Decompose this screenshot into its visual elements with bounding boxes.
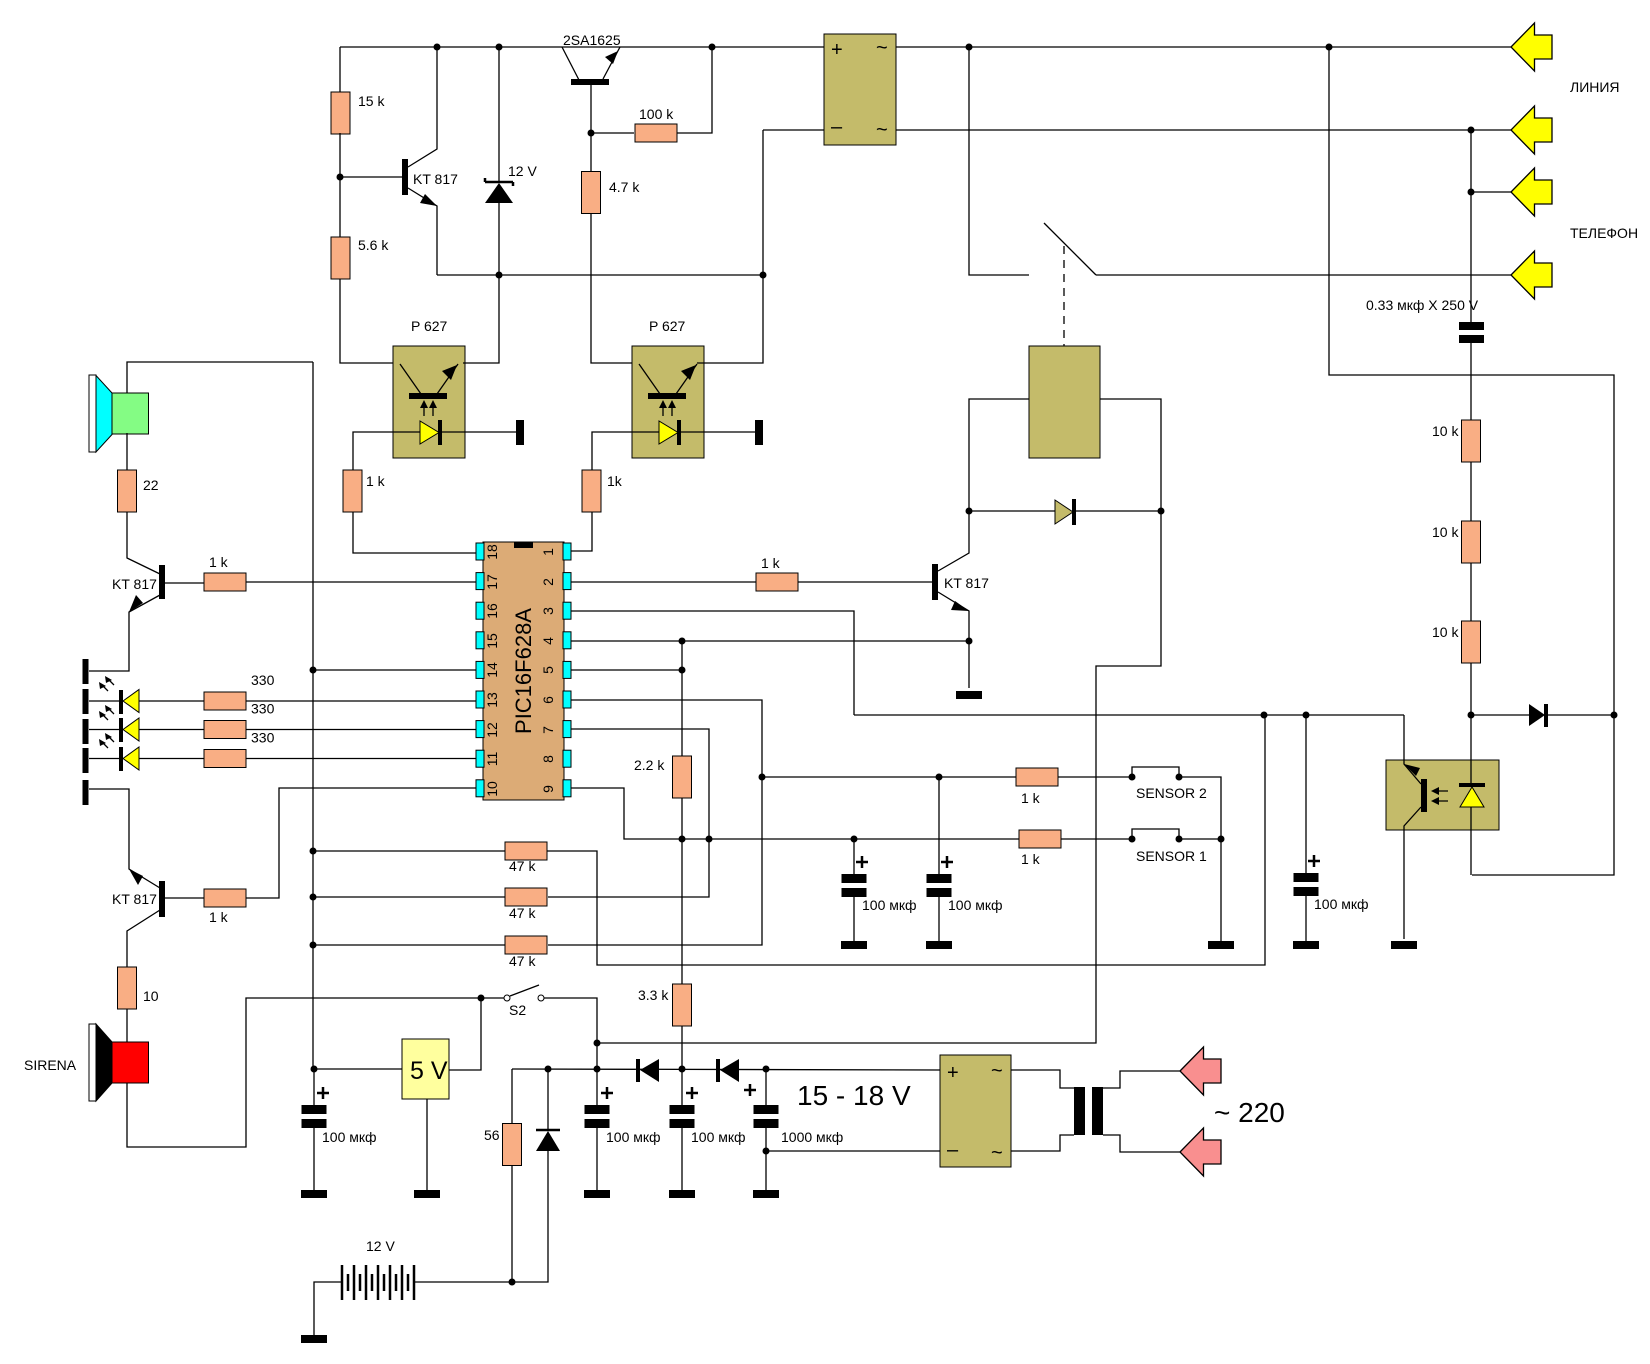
wire cap4 top [765, 1069, 767, 1105]
wire top rail right [896, 46, 1511, 48]
wire LED1 to resistor [139, 700, 204, 702]
resistor 47k c [505, 936, 547, 954]
wire speaker top [127, 362, 313, 393]
wire bridge1 minus [763, 129, 824, 131]
arrow Q3 emitter [951, 601, 969, 611]
node switch feed [966, 44, 973, 51]
bridge rectifier B2 [940, 1055, 1011, 1167]
wire 15k to node [339, 133, 341, 237]
resistor 15k [331, 92, 350, 134]
svg-text:ЛИНИЯ: ЛИНИЯ [1570, 79, 1620, 95]
wire 100k left [591, 132, 634, 134]
wire 330 to pin12 [246, 729, 476, 731]
wire capB top [938, 777, 940, 874]
wire 47k3 row [313, 944, 505, 946]
capacitor C3 100mkf [670, 1105, 695, 1114]
node S2 left [478, 995, 485, 1002]
svg-text:KT 817: KT 817 [944, 575, 989, 591]
battery GB1 12V [342, 1265, 414, 1300]
svg-text:1 k: 1 k [209, 554, 229, 570]
svg-text:5 V: 5 V [410, 1057, 448, 1085]
ground opto3 [1391, 941, 1417, 949]
resistor 10k c [1462, 621, 1481, 663]
wire zener top [498, 47, 500, 182]
svg-text:~: ~ [991, 1060, 1003, 1082]
wire switch feed [969, 47, 1029, 275]
svg-text:P 627: P 627 [411, 318, 448, 334]
wire capA bottom [853, 897, 855, 941]
wire cap3 bottom [681, 1128, 683, 1190]
wire bar to LED3 [89, 758, 119, 760]
wire top rail left [340, 46, 824, 48]
wire pin3 [571, 611, 854, 715]
wire LED3 to resistor [139, 758, 204, 760]
wire Q2 base [165, 582, 204, 584]
svg-text:47 k: 47 k [509, 905, 536, 921]
svg-text:~: ~ [876, 119, 888, 141]
LED D2 [119, 718, 123, 742]
svg-text:+: + [947, 1062, 959, 1084]
svg-text:S2: S2 [509, 1002, 526, 1018]
ground sensors [1208, 941, 1234, 949]
svg-text:47 k: 47 k [509, 953, 536, 969]
wire capA top [853, 839, 855, 874]
node 10k opto [1468, 712, 1475, 719]
wire sensor2 row [763, 776, 1016, 778]
svg-text:330: 330 [251, 730, 275, 746]
wire bottom rail [512, 1069, 940, 1070]
svg-text:SIRENA: SIRENA [24, 1057, 77, 1073]
wire 1k to pin17 [246, 581, 476, 583]
svg-text:100 мкф: 100 мкф [862, 897, 917, 913]
LED D1 light arrows [99, 676, 114, 691]
wire Q2 emitter [89, 595, 160, 671]
wire opto3 emitter [1404, 807, 1421, 939]
opto U1 LED [420, 421, 439, 444]
svg-text:10 k: 10 k [1432, 524, 1459, 540]
wire diode row right [1076, 510, 1161, 512]
wire bridge2 to coil top [1011, 1070, 1074, 1088]
node Q3 emitter pin4 [966, 638, 973, 645]
svg-text:14: 14 [484, 662, 500, 678]
wire 47k2 row [313, 896, 505, 898]
wire sensor gnd [1220, 839, 1222, 941]
wire 5.6k to opto1 collector [340, 279, 393, 363]
svg-text:SENSOR 2: SENSOR 2 [1136, 785, 1207, 801]
resistor 10 [118, 967, 137, 1009]
resistor 56 [503, 1124, 522, 1166]
terminator bar opto1 [516, 420, 524, 445]
node linia col [1326, 44, 1333, 51]
svg-text:10 k: 10 k [1432, 624, 1459, 640]
diode D5 [536, 1129, 560, 1132]
diode D6 [636, 1059, 640, 1082]
ground cap4 [753, 1190, 779, 1198]
connector bar column [83, 659, 89, 684]
wire diode col [547, 1069, 549, 1129]
svg-text:SENSOR 1: SENSOR 1 [1136, 848, 1207, 864]
svg-text:6: 6 [540, 696, 556, 704]
svg-text:1k: 1k [607, 473, 623, 489]
sensor 1 contact [1132, 829, 1179, 839]
wire Q3 emitter [938, 592, 969, 688]
svg-text:2.2 k: 2.2 k [634, 757, 665, 773]
node rail cap4 [763, 1066, 770, 1073]
arrow 2SA1625 emitter [605, 51, 618, 64]
LED D3 light arrows [99, 733, 114, 748]
wire 1k to pin18 [353, 512, 476, 553]
svg-text:10: 10 [143, 988, 159, 1004]
svg-text:–: – [831, 116, 843, 138]
wire sensor2 to contact [1058, 776, 1132, 778]
opto U1 light arrows [424, 407, 433, 416]
svg-text:18: 18 [484, 544, 500, 560]
node top rail 100k [709, 44, 716, 51]
LED D1 [119, 690, 123, 714]
wire 3.3k to rail [681, 1026, 683, 1069]
arrow Q2 emitter [129, 595, 143, 612]
resistor 1k sensor2 [1016, 768, 1058, 786]
svg-text:17: 17 [484, 574, 500, 590]
svg-text:12 V: 12 V [366, 1238, 395, 1254]
capacitor C7 100mkf [1294, 873, 1319, 882]
LED D3 [119, 747, 123, 771]
ground battery [301, 1335, 327, 1343]
wire coil right bottom [1103, 1135, 1180, 1152]
wire sensor2 right [1179, 777, 1221, 839]
node sensor2 b [1176, 774, 1183, 781]
wire opto1 emitter [463, 275, 499, 363]
wire 5V left [314, 1068, 402, 1070]
resistor 3.3k [673, 984, 692, 1026]
svg-text:PIC16F628A: PIC16F628A [511, 608, 536, 734]
wire opto1 LED anode [353, 432, 420, 471]
svg-text:4.7 k: 4.7 k [609, 179, 640, 195]
svg-text:100 k: 100 k [639, 106, 674, 122]
wire battery left [314, 1282, 342, 1335]
svg-text:330: 330 [251, 701, 275, 717]
svg-text:0.33 мкф X 250 V: 0.33 мкф X 250 V [1366, 297, 1479, 313]
svg-text:15 k: 15 k [358, 93, 385, 109]
node sensor1 b [1176, 836, 1183, 843]
svg-text:330: 330 [251, 672, 275, 688]
resistor 330 1 [204, 692, 246, 710]
svg-text:KT 817: KT 817 [413, 171, 458, 187]
wire 2.2k col [681, 641, 683, 756]
chip notch [514, 542, 533, 548]
wire D3 to right col [1548, 714, 1614, 716]
node 2SA base 100k [588, 130, 595, 137]
wire cap2 bottom [596, 1128, 598, 1190]
transistor Q3 KT817 bar [932, 564, 938, 600]
capacitor C6 100mkf [927, 874, 952, 883]
wire pin2 to base [571, 581, 756, 583]
node cap B top [936, 774, 943, 781]
resistor 1k Q4 [204, 889, 246, 907]
svg-text:10: 10 [484, 781, 500, 797]
svg-text:100 мкф: 100 мкф [1314, 896, 1369, 912]
opto U1 transistor [400, 364, 458, 394]
svg-text:5.6 k: 5.6 k [358, 237, 389, 253]
svg-text:100 мкф: 100 мкф [948, 897, 1003, 913]
svg-text:9: 9 [540, 785, 556, 793]
wire Q1 collector [408, 47, 437, 167]
resistor 100k [635, 124, 677, 142]
svg-text:7: 7 [540, 726, 556, 734]
node bus pin14 [310, 667, 317, 674]
resistor 1k opto2 [582, 470, 601, 512]
capacitor C1 100mkf [302, 1105, 327, 1114]
transistor Q1 KT817 bar [402, 159, 408, 195]
wire cap033 col [1470, 130, 1472, 322]
arrow TELEFON 1 [1511, 168, 1552, 216]
node pin6 sensor2 [759, 774, 766, 781]
wire 2SA1625 left diag [562, 47, 579, 80]
wire 56 col top [511, 1069, 513, 1123]
resistor 10k a [1462, 420, 1481, 462]
ground capB [926, 941, 952, 949]
wire 2.2k to row839 [681, 798, 683, 984]
wire sensor1 right [1179, 838, 1221, 840]
node pin7 row839 [706, 836, 713, 843]
LED D2 light arrows [99, 705, 114, 720]
node bus 47k3 [310, 942, 317, 949]
wire relay right [1100, 399, 1161, 511]
chip U4 PIC16F628A body [483, 542, 564, 800]
resistor 4.7k [582, 172, 601, 214]
svg-text:12: 12 [484, 722, 500, 738]
opto U2 light arrows [663, 407, 672, 416]
wire 1k to pin1 [571, 512, 592, 551]
svg-text:12 V: 12 V [508, 163, 537, 179]
ground 5V [414, 1190, 440, 1198]
node telefon1 [1468, 189, 1475, 196]
svg-text:5: 5 [540, 666, 556, 674]
wire bridge1 out2 [896, 129, 1511, 131]
node 715 right [1611, 712, 1618, 719]
svg-text:16: 16 [484, 603, 500, 619]
wire 4.7k to opto2 collector [591, 214, 632, 363]
wire 2SA1625 base [590, 85, 592, 171]
resistor 1k Q2 [204, 573, 246, 591]
wire cap3 top [681, 1069, 683, 1105]
capacitor C4 1000mkf [754, 1105, 779, 1114]
svg-text:100 мкф: 100 мкф [322, 1129, 377, 1145]
node pin5 2.2k [679, 667, 686, 674]
optocoupler U1 P627 body [393, 346, 465, 458]
svg-text:8: 8 [540, 755, 556, 763]
wire 2SA1625 right diag [603, 47, 620, 79]
opto3 light arrows [1437, 791, 1448, 801]
relay K1 body [1029, 346, 1100, 458]
svg-text:4: 4 [540, 637, 556, 645]
svg-text:~ 220: ~ 220 [1214, 1097, 1285, 1128]
ground Q3 emitter [956, 691, 982, 699]
node pin4 2.2k [679, 638, 686, 645]
wire bridge2 to coil bottom [1011, 1135, 1074, 1151]
wire cap4 bottom [765, 1128, 767, 1190]
opto3 transistor bar [1421, 779, 1427, 812]
wire 22 to Q2 collector [127, 512, 160, 574]
wire bar to LED2 [89, 729, 119, 731]
wire Q1 emitter [408, 188, 437, 275]
sensor 2 contact [1132, 767, 1179, 777]
svg-text:47 k: 47 k [509, 858, 536, 874]
node 12V P627-2 junction [760, 272, 767, 279]
wire LED2 to resistor [139, 729, 204, 731]
svg-text:13: 13 [484, 692, 500, 708]
wire siren out [127, 998, 504, 1147]
wire cap5 bottom [1305, 896, 1307, 941]
svg-text:22: 22 [143, 477, 159, 493]
wire 47k1 row [313, 850, 505, 852]
regulator 5V [402, 1039, 449, 1099]
diode D7 [716, 1059, 720, 1082]
wire net715 [854, 714, 1404, 716]
opto3 LED [1459, 783, 1485, 787]
svg-text:100 мкф: 100 мкф [606, 1129, 661, 1145]
resistor 330 2 [204, 721, 246, 739]
svg-text:+: + [831, 39, 843, 61]
node relay diode right [1158, 508, 1165, 515]
ground cap3 [669, 1190, 695, 1198]
node base KT817 Q1 [337, 174, 344, 181]
svg-text:1: 1 [540, 548, 556, 556]
node y1043 [594, 1040, 601, 1047]
ground cap5 [1293, 941, 1319, 949]
arrow LINIA 1 [1511, 23, 1552, 71]
ground buscap [301, 1190, 327, 1198]
node 715 x1265 [1261, 712, 1268, 719]
optocoupler U2 P627 body [632, 346, 704, 458]
svg-text:1 k: 1 k [209, 909, 229, 925]
wire 330 to pin13 [246, 700, 476, 702]
wire cap5 top [1305, 715, 1307, 873]
wire pin7 [548, 729, 709, 897]
wire opto3 LED bottom [1470, 807, 1472, 875]
svg-text:–: – [947, 1139, 959, 1161]
ground capA [841, 941, 867, 949]
svg-text:2SA1625: 2SA1625 [563, 32, 621, 48]
resistor 47k b [505, 888, 547, 906]
transistor 2SA1625 bar [571, 79, 609, 85]
node rail diode [545, 1066, 552, 1073]
svg-text:15: 15 [484, 633, 500, 649]
node sensor gnd [1218, 836, 1225, 843]
wire diode col bottom [415, 1151, 548, 1282]
arrow Q4 emitter [129, 869, 143, 885]
resistor 2.2k [673, 756, 692, 798]
wire capB bottom [938, 897, 940, 941]
svg-text:KT 817: KT 817 [112, 576, 157, 592]
svg-text:2: 2 [540, 578, 556, 586]
bridge rectifier B1 [824, 34, 896, 145]
wire bar to LED1 [89, 700, 119, 702]
arrow 220 top [1180, 1047, 1221, 1095]
node relay diode left [966, 508, 973, 515]
resistor 1k opto1 [343, 470, 362, 512]
wire 10k c down [1470, 663, 1472, 715]
wire buscap top [313, 1069, 315, 1105]
svg-text:P 627: P 627 [649, 318, 686, 334]
wire opto1 LED cathode [442, 431, 516, 433]
resistor 5.6k [331, 237, 350, 279]
wire 330 to pin11 [246, 758, 476, 760]
transistor Q2 KT817 bar [159, 565, 165, 599]
transformer T1 [1074, 1087, 1085, 1135]
arrow opto3 collector [1404, 764, 1420, 776]
wire pin4 [571, 640, 969, 642]
wire opto2 emitter [697, 130, 763, 363]
wire speaker bottom [126, 433, 128, 470]
wire 10k ab [1470, 462, 1472, 521]
wire opto2 LED cathode [681, 431, 755, 433]
node bus 47k1 [310, 848, 317, 855]
opto U2 transistor [639, 364, 697, 394]
chip pins [476, 543, 484, 560]
svg-text:1 k: 1 k [1021, 790, 1041, 806]
node rail 3.3k [679, 1066, 686, 1073]
svg-text:3.3 k: 3.3 k [638, 987, 669, 1003]
node bus rail [311, 1066, 318, 1073]
svg-text:56: 56 [484, 1127, 500, 1143]
wire coil right top [1103, 1071, 1180, 1088]
node sensor2 a [1129, 774, 1136, 781]
wire 5V gnd [426, 1099, 428, 1190]
node top rail Q1 collector [434, 44, 441, 51]
wire switch out [1096, 274, 1511, 276]
speaker LS1 [89, 375, 96, 452]
arrow LINIA 2 [1511, 106, 1552, 154]
arrow Q1 emitter [420, 194, 437, 206]
arrow 220 bottom [1180, 1128, 1221, 1176]
node zener top [496, 44, 503, 51]
resistor 47k a [505, 842, 547, 860]
wire 100k right up [677, 47, 712, 133]
wire diode D3 row [1471, 714, 1529, 716]
node cap4 1151 [763, 1148, 770, 1155]
wire buscap bottom [313, 1128, 315, 1190]
node row839 capA [851, 836, 858, 843]
wire 10k bc [1470, 563, 1472, 621]
capacitor C8 0.33mkf [1459, 322, 1484, 330]
wire pin5 [571, 669, 682, 671]
resistor 22 [118, 470, 137, 512]
wire switch lever [1044, 223, 1096, 275]
wire sensor1 row [1019, 838, 1132, 840]
wire 1k to pin10 [246, 788, 476, 898]
wire Q4 emitter [89, 789, 160, 888]
svg-text:~: ~ [991, 1142, 1003, 1164]
resistor 1k pin2 [756, 573, 798, 591]
node battery 56 [509, 1279, 516, 1286]
wire pin9 [571, 788, 1019, 839]
wire Q3 collector [938, 511, 969, 571]
arrow TELEFON 2 [1511, 251, 1552, 299]
wire bus main [312, 362, 314, 1069]
optocoupler U3 body [1386, 760, 1499, 830]
capacitor C2 100mkf [585, 1105, 610, 1114]
svg-text:1000 мкф: 1000 мкф [781, 1129, 843, 1145]
diode D3 [1529, 704, 1545, 726]
svg-text:11: 11 [484, 752, 500, 767]
node sensor1 a [1129, 836, 1136, 843]
svg-text:~: ~ [876, 37, 888, 59]
wire S2 out [544, 998, 597, 1069]
svg-text:ТЕЛЕФОН: ТЕЛЕФОН [1570, 225, 1638, 241]
wire 15k column top [339, 47, 341, 93]
svg-text:1 k: 1 k [761, 555, 781, 571]
